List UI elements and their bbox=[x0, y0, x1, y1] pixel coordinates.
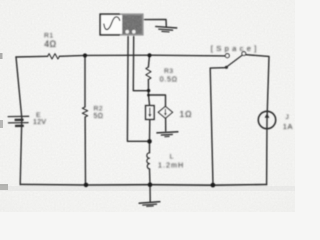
svg-text:1.2mH: 1.2mH bbox=[158, 160, 184, 169]
svg-text:5Ω: 5Ω bbox=[94, 113, 104, 120]
svg-text:0.5Ω: 0.5Ω bbox=[160, 74, 178, 83]
svg-text:J: J bbox=[285, 114, 288, 121]
svg-text:[Space]: [Space] bbox=[211, 44, 260, 53]
svg-text:R2: R2 bbox=[94, 106, 104, 113]
svg-text:4Ω: 4Ω bbox=[44, 39, 56, 49]
svg-text:1A: 1A bbox=[283, 122, 293, 131]
svg-text:12V: 12V bbox=[33, 119, 46, 126]
svg-text:1Ω: 1Ω bbox=[180, 109, 193, 119]
